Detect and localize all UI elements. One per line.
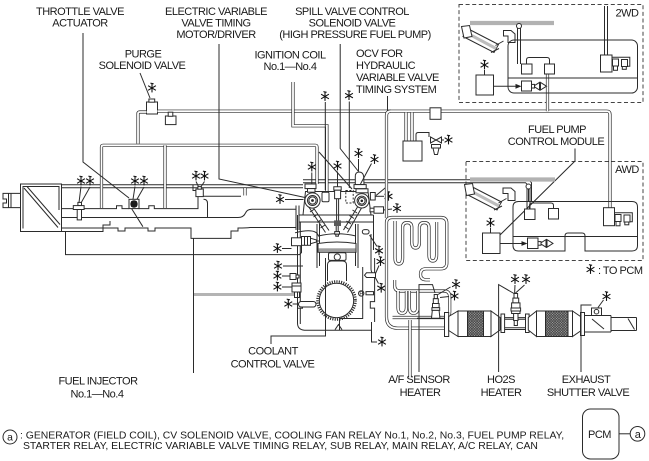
svg-text:COOLANT: COOLANT bbox=[248, 346, 298, 358]
shutter star + leader bbox=[603, 292, 611, 301]
port fitting with stars bbox=[196, 187, 203, 197]
cat 1 cone out bbox=[491, 311, 500, 337]
runner rail top bbox=[62, 209, 297, 217]
label: fuel injector bbox=[58, 376, 138, 401]
throttle plate diagonal bbox=[24, 188, 58, 228]
svg-text:CONTROL VALVE: CONTROL VALVE bbox=[231, 359, 315, 371]
HO2S stars + leaders bbox=[511, 275, 519, 284]
svg-text:SHUTTER VALVE: SHUTTER VALVE bbox=[547, 387, 629, 399]
legend note a bbox=[3, 430, 564, 452]
label: OCV for hydraulic variable valve timing system bbox=[356, 48, 439, 96]
cat 2 barrel bbox=[537, 311, 573, 337]
cat 1 cone in bbox=[449, 311, 458, 337]
svg-text:HEATER: HEATER bbox=[400, 387, 441, 399]
svg-text:AWD: AWD bbox=[615, 164, 639, 176]
label: spill valve control solenoid valve bbox=[279, 6, 431, 41]
serpentine inner weave bbox=[395, 221, 437, 264]
serpentine lower band + right column bbox=[393, 291, 450, 318]
svg-text:CONTROL MODULE: CONTROL MODULE bbox=[508, 136, 605, 148]
flange 3 bbox=[581, 313, 585, 336]
svg-text:SPILL VALVE CONTROL: SPILL VALVE CONTROL bbox=[295, 6, 409, 18]
hose to hp pump bbox=[319, 152, 352, 189]
purge solenoid valve bbox=[147, 99, 158, 114]
high pressure fuel pump + spill valve bbox=[354, 172, 366, 189]
2wd lower pump + impeller bbox=[522, 81, 532, 91]
throttle map sensor fitting bbox=[73, 202, 84, 220]
cam cover outline bbox=[303, 192, 371, 216]
2WD dashed box bbox=[459, 5, 643, 103]
2wd filler neck bbox=[463, 29, 499, 53]
lower band left curl bbox=[395, 280, 400, 291]
svg-text:THROTTLE VALVE: THROTTLE VALVE bbox=[36, 6, 124, 18]
branch down to pump module bbox=[406, 113, 412, 142]
svg-text:HEATER: HEATER bbox=[481, 387, 522, 399]
crank P mark bbox=[359, 291, 364, 296]
throttle body bbox=[21, 184, 62, 232]
2wd filler gray bbox=[470, 21, 554, 25]
left cam pulley bbox=[305, 184, 320, 208]
throttle lower step bbox=[62, 221, 111, 232]
svg-text:FUEL PUMP: FUEL PUMP bbox=[528, 124, 586, 136]
head deck lines bbox=[299, 215, 374, 222]
label: electric variable valve timing motor/driver bbox=[165, 6, 267, 41]
purge hose left + drop to evap line bbox=[138, 112, 147, 144]
svg-text:a: a bbox=[7, 433, 13, 444]
air inlet snorkel bbox=[3, 193, 21, 207]
label: coolant control valve bbox=[231, 346, 315, 371]
2wd filler elbow bbox=[504, 31, 516, 43]
serpentine outer tube bbox=[387, 218, 447, 329]
shutter plate diagonal bbox=[592, 319, 604, 329]
svg-text:FUEL INJECTOR: FUEL INJECTOR bbox=[58, 376, 138, 388]
coolant hose low left bbox=[66, 232, 302, 255]
svg-text:(HIGH PRESSURE FUEL PUMP): (HIGH PRESSURE FUEL PUMP) bbox=[279, 29, 431, 41]
2wd arrow bbox=[494, 85, 518, 87]
awd arrow bbox=[500, 243, 524, 245]
svg-text:2WD: 2WD bbox=[616, 8, 640, 20]
purge hose right (to fuel area) bbox=[158, 111, 611, 208]
svg-text:HYDRAULIC: HYDRAULIC bbox=[356, 60, 416, 72]
engine bottom L + star bbox=[372, 330, 378, 342]
flange 1 bbox=[445, 313, 449, 337]
A/F label leader bbox=[419, 285, 435, 372]
feed pipe from fuel line area bbox=[387, 111, 392, 218]
M box stars bbox=[131, 176, 139, 185]
2wd in-tank pipe bbox=[518, 28, 521, 64]
serpentine drain pair bbox=[408, 320, 411, 378]
A/F stars + leaders bbox=[452, 280, 460, 289]
label: A/F sensor heater bbox=[388, 374, 450, 399]
awd in-tank pipe bbox=[527, 189, 530, 209]
pump module box bbox=[403, 141, 422, 161]
star leaders onto engine top bbox=[321, 92, 329, 101]
awd filler elbow bbox=[503, 188, 515, 201]
awd filler neck bbox=[466, 186, 502, 210]
svg-text:SOLENOID VALVE: SOLENOID VALVE bbox=[309, 18, 396, 30]
engine right nubs + stars bbox=[362, 230, 369, 234]
serpentine mid S-curve bbox=[421, 269, 431, 280]
evap mid drop bbox=[163, 145, 166, 208]
runner rail bottom bbox=[63, 228, 296, 239]
fuel pump control module leader bbox=[499, 149, 575, 237]
label: ignition coil bbox=[254, 50, 326, 74]
label: fuel pump control module bbox=[508, 124, 605, 148]
cat 2 cone out bbox=[573, 311, 581, 337]
label: to PCM legend bbox=[587, 265, 643, 277]
piston bbox=[318, 242, 356, 252]
intake port flange bbox=[296, 206, 299, 231]
coil No2 dashed bbox=[346, 191, 353, 204]
throttle valve actuator leader bbox=[83, 33, 129, 198]
2wd fuel tank bbox=[508, 40, 638, 93]
evap hose upper right portion bbox=[303, 180, 532, 201]
awd control box + star bbox=[483, 233, 501, 254]
fuel injector leader bbox=[193, 238, 195, 373]
coolant control valve leader bbox=[271, 258, 326, 344]
purge star bbox=[148, 83, 156, 92]
svg-text:ACTUATOR: ACTUATOR bbox=[52, 18, 108, 30]
cylinder walls bbox=[317, 224, 358, 268]
flange pair + mid pipe bbox=[501, 314, 505, 333]
svg-text:SOLENOID VALVE: SOLENOID VALVE bbox=[99, 60, 186, 72]
engine top stars bbox=[308, 162, 316, 171]
front pipe bbox=[417, 317, 445, 319]
cat 2 cone in bbox=[528, 311, 536, 337]
evap drop to ledge bbox=[243, 188, 246, 196]
manifold top edge with M box level bbox=[62, 185, 242, 209]
right cam pulley bbox=[355, 189, 369, 208]
manifold upper edge lines bbox=[62, 184, 304, 186]
PCM box bbox=[583, 409, 645, 459]
svg-text:EXHAUST: EXHAUST bbox=[562, 374, 611, 386]
cat 1 barrel bbox=[458, 311, 491, 337]
HO2S sensor bbox=[511, 294, 521, 326]
crank gear (flywheel) bbox=[318, 282, 356, 320]
svg-text:A/F SENSOR: A/F SENSOR bbox=[388, 374, 450, 386]
surge duct step bbox=[193, 185, 208, 218]
evap/vacuum hose pair across bbox=[102, 145, 318, 208]
fuel feed gray line bbox=[194, 293, 297, 296]
label: exhaust shutter valve bbox=[547, 374, 629, 399]
hose fitting below purge line bbox=[165, 112, 176, 124]
serpentine lower U loops bbox=[398, 291, 406, 313]
2wd connector + plugs bbox=[605, 6, 608, 55]
svg-text:No.1—No.4: No.1—No.4 bbox=[264, 61, 317, 73]
svg-text:PCM: PCM bbox=[588, 429, 611, 441]
svg-text:No.1—No.4: No.1—No.4 bbox=[71, 389, 124, 401]
ignition coil on engine bbox=[322, 192, 329, 202]
awd lower pump + impeller bbox=[528, 238, 539, 249]
label: purge solenoid valve bbox=[99, 49, 186, 73]
2wd pump units bbox=[522, 64, 533, 74]
svg-text:HO2S: HO2S bbox=[487, 374, 515, 386]
svg-text:MOTOR/DRIVER: MOTOR/DRIVER bbox=[176, 29, 256, 41]
svg-text:IGNITION COIL: IGNITION COIL bbox=[254, 50, 326, 62]
awd filler gray bbox=[470, 177, 555, 181]
svg-text:PURGE: PURGE bbox=[125, 49, 162, 61]
awd pump units bbox=[525, 209, 536, 220]
throttle sensor stars bbox=[77, 176, 85, 185]
oil drain triangle bbox=[335, 325, 342, 330]
svg-text:STARTER RELAY, ELECTRIC VARIAB: STARTER RELAY, ELECTRIC VARIABLE VALVE T… bbox=[23, 441, 538, 452]
svg-text:OCV FOR: OCV FOR bbox=[356, 48, 403, 60]
awd fuel tank bbox=[513, 202, 638, 252]
spill valve leader bbox=[340, 44, 358, 172]
2wd control box + star bbox=[476, 75, 494, 95]
shutter actuator box bbox=[592, 308, 602, 316]
label: throttle valve actuator bbox=[36, 6, 124, 30]
purge leader bbox=[140, 73, 150, 98]
OCV on engine bbox=[370, 193, 375, 201]
block inner left wall bbox=[299, 222, 301, 324]
AWD dashed box bbox=[466, 162, 643, 261]
2wd tank feed branch bbox=[546, 74, 549, 111]
svg-text:VALVE TIMING: VALVE TIMING bbox=[181, 18, 250, 30]
shutter valve pipe bbox=[585, 316, 637, 333]
junction box on fuel hose bbox=[430, 108, 441, 120]
A/F sensor bbox=[432, 295, 440, 319]
exhaust shutter label leader bbox=[581, 305, 592, 372]
label: HO2S heater bbox=[481, 374, 522, 399]
svg-text:M: M bbox=[131, 200, 138, 209]
ignition coil leader (double) bbox=[293, 82, 327, 191]
svg-text:: GENERATOR (FIELD COIL), CV S: : GENERATOR (FIELD COIL), CV SOLENOID VA… bbox=[20, 431, 564, 442]
cam valley V lines bbox=[309, 207, 330, 233]
svg-text:TIMING SYSTEM: TIMING SYSTEM bbox=[356, 84, 437, 96]
hex fitting right bbox=[370, 207, 384, 213]
ocv leader bbox=[376, 96, 388, 196]
svg-text:ELECTRIC VARIABLE: ELECTRIC VARIABLE bbox=[165, 6, 267, 18]
check valve + nozzle bbox=[416, 133, 429, 142]
M motor box (throttle valve actuator) bbox=[129, 199, 139, 209]
motor/driver leader bbox=[219, 44, 305, 198]
M box lower lead bbox=[132, 209, 143, 227]
svg-text:VARIABLE VALVE: VARIABLE VALVE bbox=[356, 72, 439, 84]
fuel injector on engine bbox=[334, 187, 341, 236]
awd connector + plugs bbox=[604, 208, 615, 226]
engine left fittings + stars bbox=[292, 237, 320, 246]
HO2S label leader bbox=[499, 285, 514, 372]
svg-text:: TO PCM: : TO PCM bbox=[598, 265, 643, 277]
block outline bbox=[298, 215, 375, 330]
